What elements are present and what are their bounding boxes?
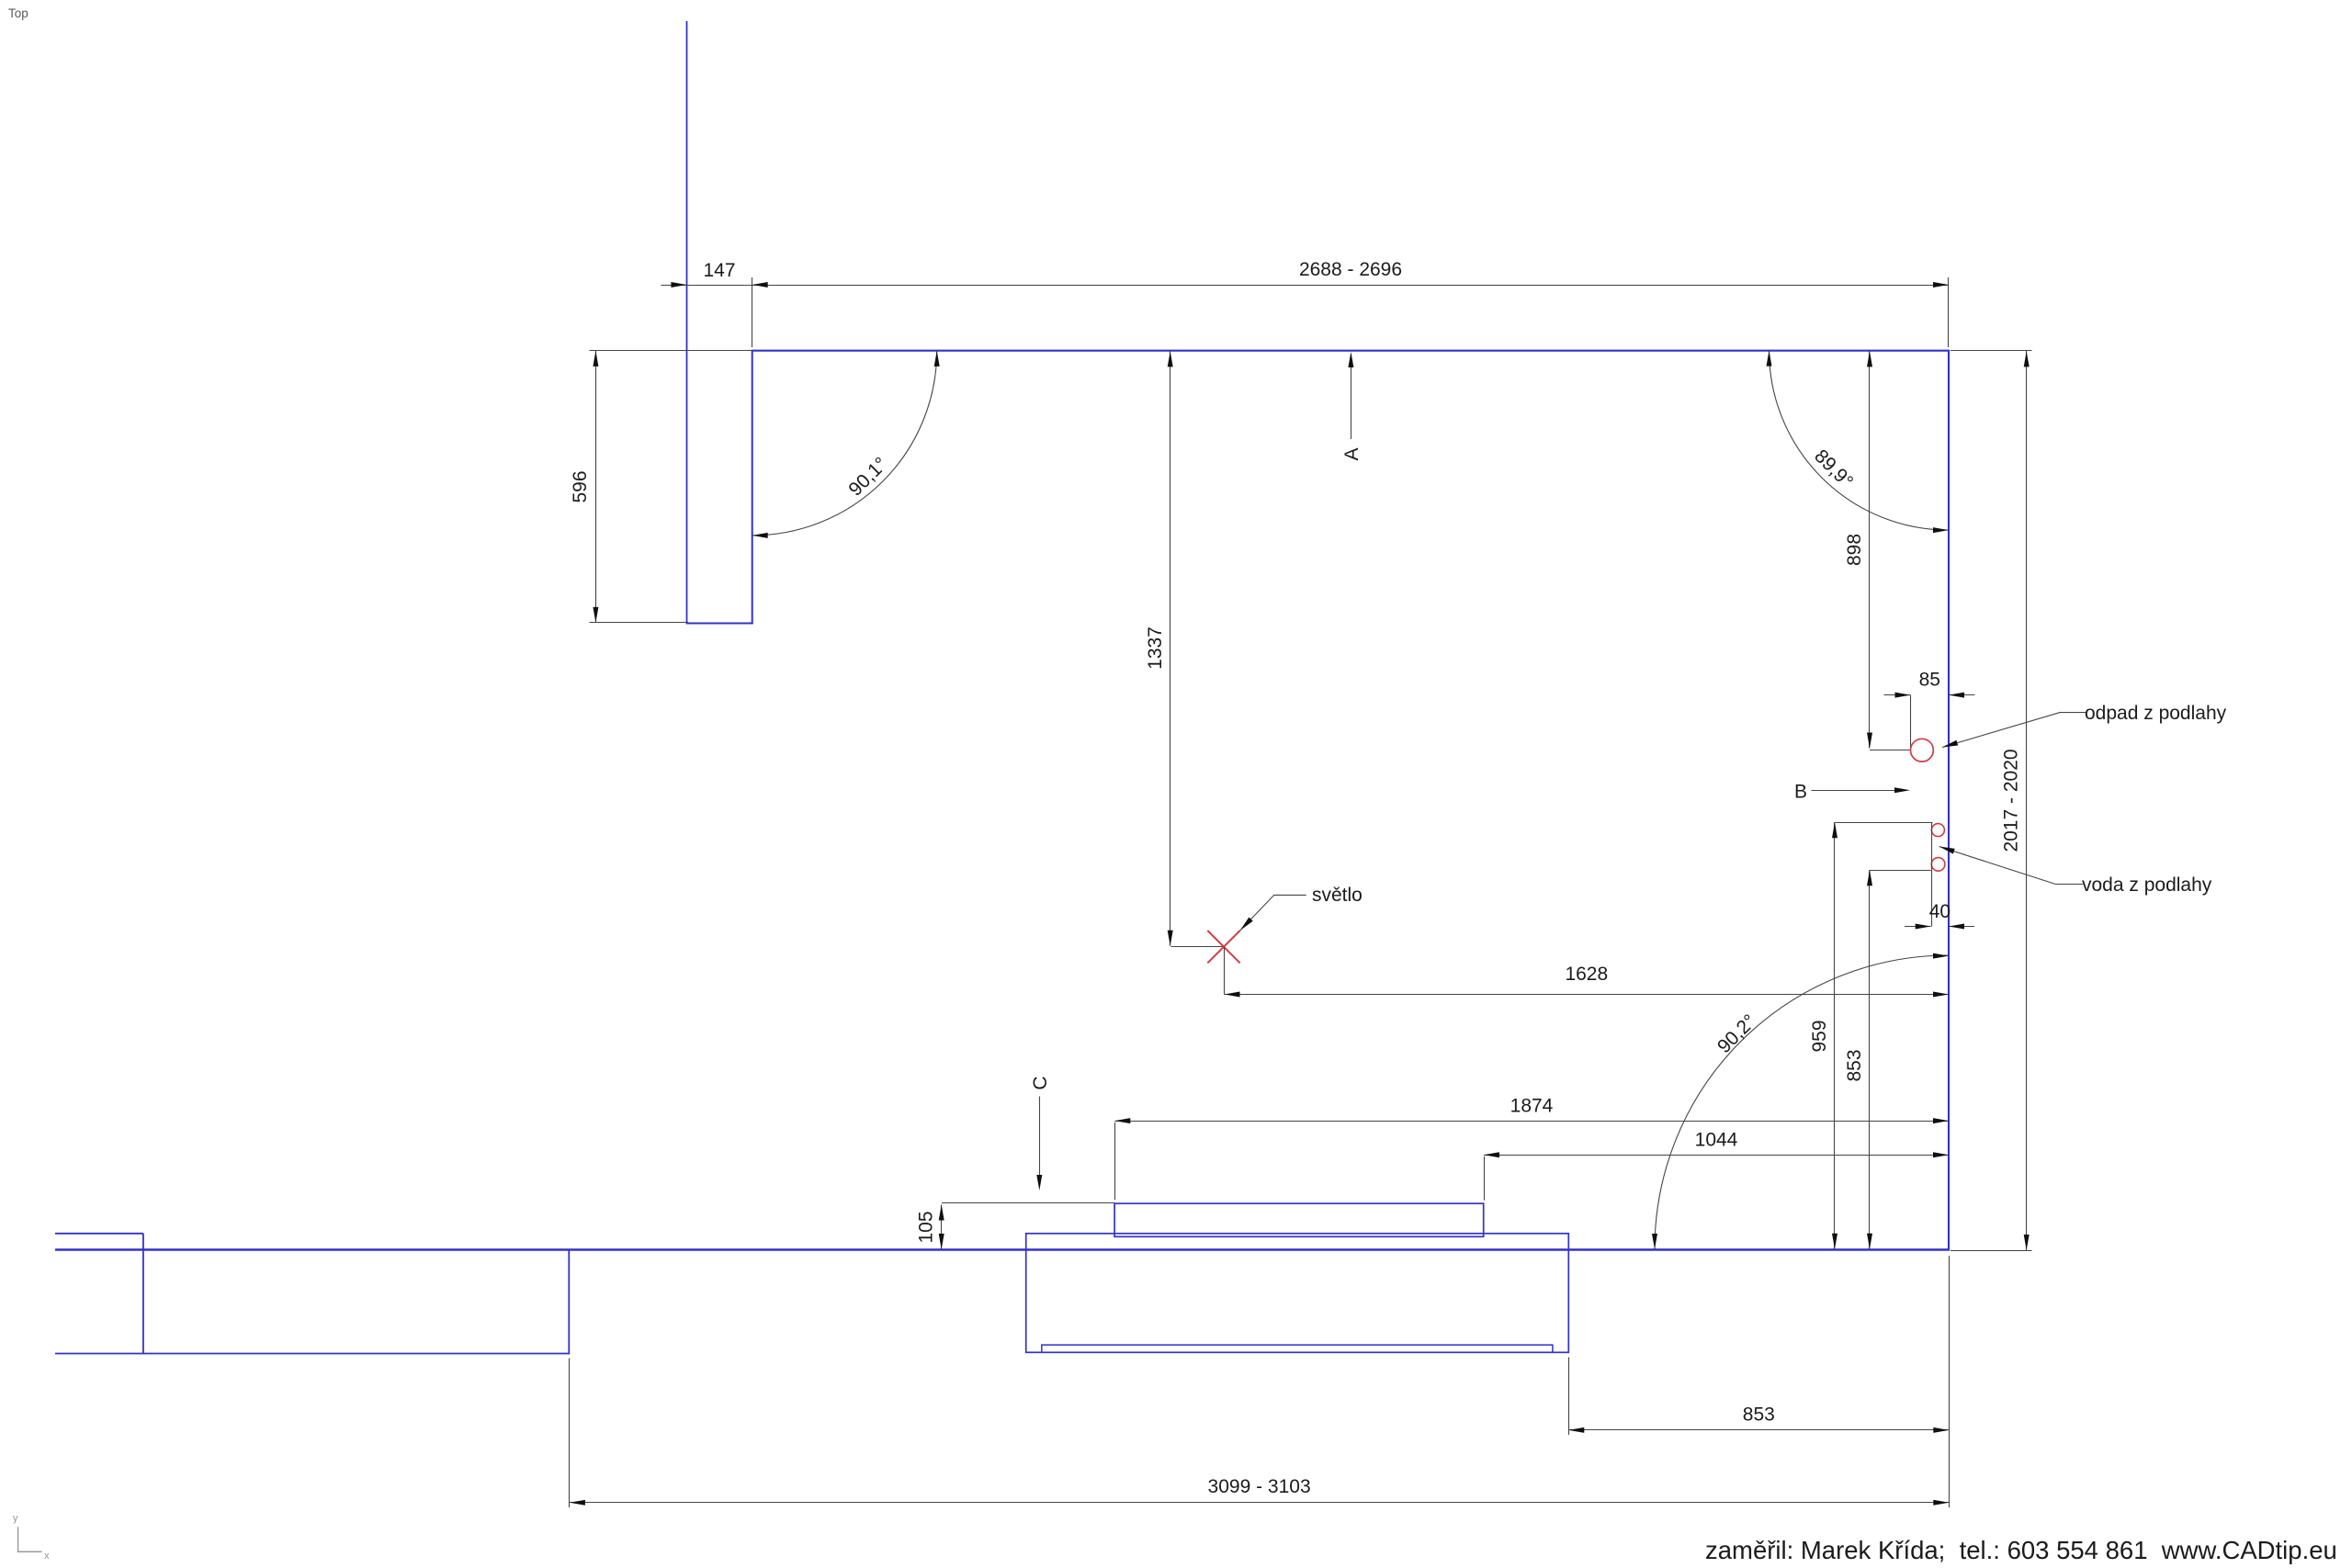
label 3099 - 3103 — [1208, 1476, 1311, 1497]
label 596 — [570, 470, 591, 502]
svg-text:3099 - 3103: 3099 - 3103 — [1208, 1476, 1311, 1497]
label 959 — [1809, 1020, 1830, 1052]
dimension line 1628 — [1225, 992, 1950, 998]
svg-text:85: 85 — [1919, 669, 1940, 690]
extension 853 bottom left — [1568, 1358, 1570, 1436]
svg-text:C: C — [1030, 1076, 1051, 1089]
svg-text:voda z podlahy: voda z podlahy — [2082, 874, 2212, 896]
angle arc 89,9deg — [1767, 351, 1950, 533]
extension tick drain level — [1870, 750, 1911, 751]
svg-text:1337: 1337 — [1145, 626, 1166, 670]
extension tick 853 — [1870, 870, 1931, 872]
angle arc 90,2deg — [1652, 953, 1949, 1249]
dimension line 1874 — [1114, 1118, 1949, 1123]
water outlet circle lower — [1931, 858, 1945, 872]
label 2688 - 2696 — [1299, 259, 1402, 280]
extension right wall lower — [1949, 1256, 1951, 1507]
dimension line 2017-2020 — [2024, 351, 2030, 1251]
dimension line 959 — [1832, 822, 1837, 1249]
dimension line 147 and 2688-2696 — [661, 282, 1949, 288]
extension line at top right corner — [1948, 277, 1950, 347]
label 853 right — [1844, 1049, 1865, 1081]
extension line 105 — [942, 1202, 1115, 1204]
svg-text:B: B — [1794, 781, 1807, 802]
label 1874 — [1510, 1095, 1554, 1116]
svg-text:105: 105 — [915, 1211, 936, 1243]
extension drop from light — [1224, 947, 1226, 995]
label C — [1030, 1076, 1051, 1089]
angle arc 90,1deg — [752, 351, 940, 538]
svg-text:898: 898 — [1844, 534, 1865, 566]
label 85 — [1919, 669, 1940, 690]
extension 3099 left — [569, 1359, 571, 1508]
svg-text:2017 - 2020: 2017 - 2020 — [2000, 749, 2021, 852]
wall notch bottom — [686, 623, 753, 625]
dimension line 596 — [593, 351, 598, 623]
svg-text:zaměřil: Marek Křída; tel.: 6: zaměřil: Marek Křída; tel.: 603 554 861 … — [1705, 1536, 2337, 1564]
dimension line 1044 — [1484, 1152, 1949, 1157]
dimension line 105 — [939, 1205, 944, 1250]
svg-text:A: A — [1341, 447, 1363, 460]
svg-text:853: 853 — [1844, 1049, 1865, 1081]
marker C arrow — [1036, 1097, 1042, 1190]
extension drop to drain — [1910, 695, 1912, 750]
label odpad z podlahy — [2085, 703, 2227, 724]
bathtub rectangle — [1026, 1234, 1569, 1353]
right wall — [1948, 350, 1950, 1249]
label 853 bottom — [1743, 1404, 1775, 1425]
svg-text:1874: 1874 — [1510, 1095, 1554, 1116]
dimension line 898 — [1867, 351, 1872, 749]
label 89,9deg — [1810, 446, 1857, 492]
floor drain circle (odpad) — [1911, 739, 1934, 761]
footer text — [1705, 1536, 2337, 1564]
wall notch right side — [752, 351, 753, 625]
UCS axes icon — [13, 1513, 50, 1562]
label 1628 — [1565, 964, 1608, 985]
bottom wall — [55, 1248, 1950, 1250]
label 105 — [915, 1211, 936, 1243]
svg-text:x: x — [44, 1551, 50, 1562]
label 898 — [1844, 534, 1865, 566]
dimension line 1337 — [1168, 351, 1173, 946]
dimension line 853 right — [1867, 870, 1872, 1249]
svg-text:2688 - 2696: 2688 - 2696 — [1299, 259, 1402, 280]
label 40 — [1929, 901, 1951, 922]
water outlet circle upper — [1931, 824, 1944, 837]
label svetlo — [1312, 885, 1363, 906]
top wall — [752, 350, 1950, 352]
extension tick 959 — [1835, 822, 1933, 824]
label 1044 — [1695, 1129, 1738, 1150]
ledge right edge — [142, 1234, 144, 1354]
svg-text:853: 853 — [1743, 1404, 1775, 1425]
svg-text:147: 147 — [703, 260, 735, 281]
svg-text:1628: 1628 — [1565, 964, 1608, 985]
svg-text:světlo: světlo — [1312, 885, 1363, 906]
lower wall edge — [55, 1353, 570, 1355]
extension 1874 — [1114, 1122, 1116, 1200]
extension 2017 top — [1951, 350, 2032, 352]
dimension line 3099-3103 — [570, 1500, 1949, 1506]
viewport label Top — [8, 6, 28, 20]
label 1337 — [1145, 626, 1166, 670]
bathtub inner edge — [1042, 1345, 1553, 1352]
label A — [1341, 447, 1363, 460]
svg-text:Top: Top — [8, 6, 28, 20]
extension line 596 bottom — [589, 622, 688, 624]
marker A arrow — [1348, 352, 1353, 439]
marker B arrow — [1811, 787, 1910, 793]
label voda z podlahy — [2082, 874, 2212, 896]
dimension line 85 — [1884, 693, 1975, 698]
label 2017 - 2020 — [2000, 749, 2021, 852]
label B — [1794, 781, 1807, 802]
leader svetlo — [1238, 895, 1306, 932]
extension line to light — [1171, 946, 1225, 948]
leader odpad z podlahy — [1941, 713, 2086, 750]
label 90,1deg — [844, 454, 891, 501]
wall left spine (blue) — [686, 21, 688, 624]
label 147 — [703, 260, 735, 281]
dimension line 853 bottom — [1568, 1427, 1949, 1433]
dimension line 40 — [1905, 924, 1974, 930]
leader voda z podlahy — [1939, 844, 2083, 885]
extension line 596 top — [589, 350, 752, 352]
svg-text:y: y — [13, 1513, 18, 1524]
svg-text:596: 596 — [570, 470, 591, 502]
extension 2017 bottom — [1951, 1250, 2032, 1252]
label 90,2deg — [1713, 1010, 1760, 1057]
svg-text:959: 959 — [1809, 1020, 1830, 1052]
extension 1044 — [1484, 1156, 1486, 1201]
light symbol X (svetlo) — [1207, 931, 1239, 963]
svg-text:40: 40 — [1929, 901, 1951, 922]
washing machine rectangle — [1114, 1203, 1484, 1236]
extension drop 40 — [1931, 823, 1933, 927]
ledge top edge — [55, 1233, 143, 1235]
svg-text:odpad z podlahy: odpad z podlahy — [2085, 703, 2227, 724]
extension line at notch corner — [752, 277, 753, 347]
wall step — [568, 1249, 570, 1354]
svg-text:1044: 1044 — [1695, 1129, 1738, 1150]
